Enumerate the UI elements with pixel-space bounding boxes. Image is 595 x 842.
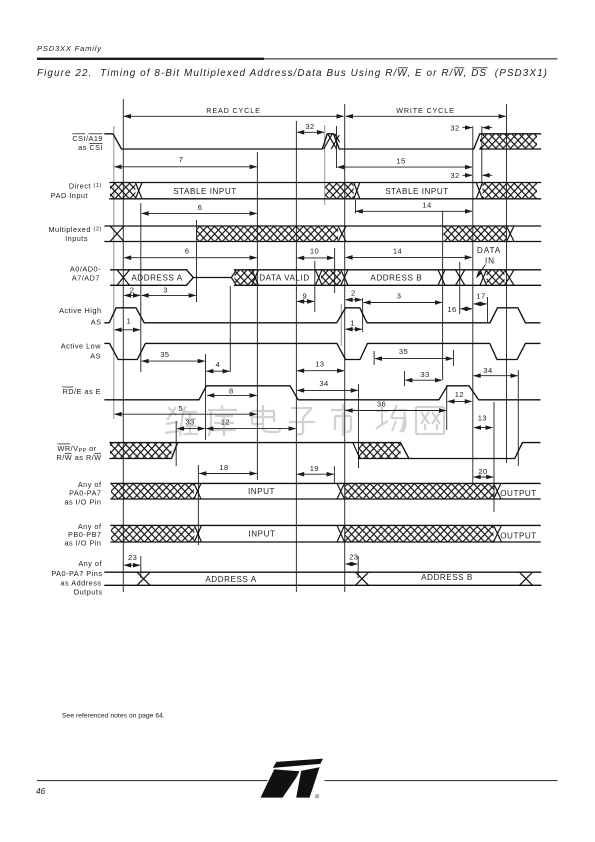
gridline x=506.5 (506, 104, 508, 463)
svg-text:PAD Input: PAD Input (51, 191, 88, 200)
svg-text:35: 35 (160, 350, 169, 359)
dim 18 (199, 473, 256, 475)
row4 X open DATA VALID (252, 270, 259, 286)
子 (289, 408, 315, 434)
READ CYCLE dimension (124, 115, 344, 117)
row1 right hatch band (480, 134, 537, 149)
gridline x=336.5 (336, 126, 338, 168)
dim 8 (207, 394, 256, 396)
gridline x=358.5 (358, 384, 360, 468)
svg-text:as I/O Pin: as I/O Pin (64, 497, 101, 506)
row6 Active Low AS waveform (105, 343, 540, 359)
gridline x=296.4 (295, 121, 297, 592)
gridline x=140.8 (140, 203, 142, 372)
row9 hatch mid (345, 484, 494, 499)
row9 X open INPUT (194, 483, 201, 499)
svg-text:33: 33 (420, 370, 429, 379)
row10 hatch left (111, 526, 194, 542)
row4 X close ADDRESS B (438, 270, 445, 286)
svg-text:as CSI: as CSI (78, 143, 103, 152)
footer rule right (325, 780, 558, 781)
dim 3 (write) (364, 302, 442, 304)
row3 hatch band 1 (197, 227, 339, 242)
gridline x=123.3 (122, 99, 124, 592)
row3 lead X (110, 226, 124, 242)
svg-text:RD/E as E: RD/E as E (62, 387, 101, 396)
svg-text:PSD3XX Family: PSD3XX Family (37, 44, 102, 53)
dim 2 (write) (346, 299, 362, 301)
svg-text:1: 1 (350, 318, 355, 327)
svg-text:32: 32 (305, 122, 314, 131)
dim 36 (346, 410, 446, 412)
dim 23 (right) (346, 563, 358, 565)
row8 hatch band left (110, 443, 172, 458)
gridline x=205.5 (205, 354, 207, 440)
row4 hatch band 1 (235, 270, 257, 285)
dim 23 (left) (124, 564, 140, 566)
svg-text:18: 18 (219, 463, 228, 472)
dim 34 (mid) (297, 389, 358, 391)
dim 14 (write MUX) (346, 256, 472, 258)
维 (165, 406, 198, 436)
gridline x=459.7 (459, 262, 461, 314)
svg-text:R: R (316, 795, 318, 799)
svg-text:3: 3 (397, 292, 402, 301)
svg-text:AS: AS (91, 317, 102, 326)
svg-text:13: 13 (478, 414, 487, 423)
gridline x=481.8 (481, 126, 483, 182)
row2 X close right (476, 183, 482, 199)
svg-text:23: 23 (128, 553, 137, 562)
svg-text:Active High: Active High (59, 306, 101, 315)
watermark 维库电子市场网 (simplified gray strokes) (165, 404, 444, 436)
row8 X expand write (353, 443, 360, 459)
svg-text:IN: IN (485, 257, 495, 266)
gridline x=334.4 (D19 tick) (333, 466, 335, 484)
gray ref line x=113.8 (113, 126, 115, 419)
row9 PA I/O rails (111, 483, 540, 499)
svg-text:1: 1 (127, 316, 132, 325)
dim 1 (read) (115, 329, 140, 331)
dim 9 (297, 300, 314, 302)
svg-text:6: 6 (185, 247, 190, 256)
svg-text:15: 15 (396, 156, 405, 165)
svg-text:3: 3 (163, 285, 168, 294)
dim 6 (MUX row) (124, 257, 256, 259)
svg-text:5: 5 (179, 404, 184, 413)
svg-text:34: 34 (483, 366, 492, 375)
svg-text:INPUT: INPUT (248, 530, 275, 539)
dim 6 (PAD row) (142, 212, 257, 214)
svg-text:ADDRESS B: ADDRESS B (421, 573, 473, 582)
row9 X close INPUT (337, 483, 345, 499)
dim 12 (read) (206, 428, 295, 430)
svg-text:ADDRESS B: ADDRESS B (370, 273, 422, 282)
row4 X open ADDRESS B (341, 270, 348, 286)
row8 R/W top rail + high line (110, 443, 409, 459)
svg-text:PA0-PA7 Pins: PA0-PA7 Pins (51, 569, 102, 578)
row10 X open INPUT (194, 525, 201, 542)
dim 17 (474, 303, 487, 305)
row3 X close 1 (338, 226, 346, 242)
svg-text:10: 10 (310, 247, 319, 256)
row3 X close 2 (507, 226, 515, 242)
row1 CSI/A19 waveform (105, 134, 541, 149)
row9 X open OUTPUT (494, 483, 502, 499)
svg-text:32: 32 (450, 123, 459, 132)
svg-text:R/W as R/W: R/W as R/W (57, 453, 102, 462)
footer rule left (37, 780, 268, 781)
row10 PB I/O rails (111, 525, 540, 542)
svg-text:OUTPUT: OUTPUT (500, 532, 537, 541)
row4 A0/AD rails left (111, 270, 187, 286)
gridline x=404.5 (404, 371, 406, 386)
svg-text:16: 16 (447, 305, 456, 314)
svg-text:WRITE CYCLE: WRITE CYCLE (396, 106, 454, 115)
svg-text:14: 14 (393, 246, 402, 255)
svg-text:AS: AS (90, 351, 101, 360)
row4 rails mid-right (235, 270, 541, 286)
row2 X open mid (354, 183, 360, 199)
svg-text:32: 32 (450, 171, 459, 180)
tick x=355.5 (dim 14 left) (355, 200, 357, 214)
gridline x=453.5 (453, 350, 455, 366)
svg-text:PA0-PA7: PA0-PA7 (69, 488, 101, 497)
svg-text:A7/AD7: A7/AD7 (72, 274, 100, 283)
row8 hatch band write (359, 443, 401, 458)
row9 hatch left (111, 484, 194, 499)
dim 19 (297, 473, 333, 475)
svg-text:Inputs: Inputs (65, 234, 88, 243)
svg-text:17: 17 (476, 292, 485, 301)
svg-text:19: 19 (310, 464, 319, 473)
row4 X close DATA VALID (315, 270, 322, 286)
gridline x=374.1 (373, 351, 375, 365)
gridline x=176.2 (175, 421, 177, 466)
row2 X close left (135, 183, 142, 199)
row3 MUX rails (105, 226, 541, 242)
row1 bump hatch (324, 134, 340, 149)
row2 PAD rails (110, 183, 541, 199)
svg-text:OUTPUT: OUTPUT (500, 489, 537, 498)
row4 expand wedge into hatch (231, 270, 236, 286)
svg-text:6: 6 (198, 203, 203, 212)
header rule thin part (264, 58, 558, 59)
svg-text:13: 13 (315, 360, 324, 369)
dim 32 (read, CSI) (297, 131, 324, 133)
svg-text:36: 36 (377, 400, 386, 409)
gridline x=140.8 (R11 tick) (140, 556, 142, 578)
gridline x=257.4 (256, 152, 258, 480)
svg-text:DATA VALID: DATA VALID (259, 273, 309, 282)
svg-text:as Address: as Address (60, 578, 101, 587)
gridline x=198.4 (197, 465, 199, 545)
svg-text:8: 8 (229, 386, 234, 395)
DATA IN pointer arrow (477, 265, 486, 278)
svg-text:A0/AD0-: A0/AD0- (70, 264, 101, 273)
svg-text:35: 35 (399, 347, 408, 356)
dim 1 (write) (346, 328, 362, 330)
svg-text:Outputs: Outputs (73, 587, 102, 596)
dim 2 (read) (124, 294, 140, 296)
row5 Active High AS waveform (105, 308, 540, 323)
gridline x=230.3 (229, 286, 231, 372)
dim 10 (297, 257, 334, 259)
row4 X open after DATA IN hatch (480, 270, 514, 286)
row3 hatch band 2 (444, 227, 507, 242)
svg-text:INPUT: INPUT (248, 487, 275, 496)
row11 X 2 (356, 572, 369, 585)
dim 13 (read) (297, 370, 344, 372)
row4 hatch band 3 (487, 270, 505, 285)
svg-text:2: 2 (130, 285, 135, 294)
市 (331, 404, 355, 436)
svg-text:9: 9 (303, 292, 308, 301)
row4 X at 460 (456, 270, 465, 286)
dim 34 (write right) (474, 375, 518, 377)
dim 33 (write) (405, 379, 441, 381)
row11 PA address rails (105, 572, 541, 585)
dim 3 (read) (142, 294, 196, 296)
gridline x=196.5 (196, 220, 198, 302)
row2 hatch band mid (325, 183, 354, 198)
svg-text:See referenced notes on page 6: See referenced notes on page 64. (62, 713, 165, 720)
svg-text:12: 12 (455, 390, 464, 399)
row4 close to center line (187, 270, 232, 286)
dim 35 (read) (142, 360, 205, 362)
库 (208, 405, 237, 436)
gridline x=518.3 (517, 370, 519, 466)
svg-text:Any of: Any of (78, 559, 102, 568)
svg-text:Figure 22. Timing of 8-Bit Mu: Figure 22. Timing of 8-Bit Multiplexed A… (37, 68, 548, 79)
dim 7 (115, 166, 257, 168)
svg-text:STABLE INPUT: STABLE INPUT (385, 187, 449, 196)
dim 13 (write) (474, 427, 493, 429)
dim 4 (206, 370, 229, 372)
场 (376, 405, 407, 432)
row2 hatch band right (483, 183, 538, 198)
dim 15 (337, 166, 472, 168)
gray ref line x=341.3 (340, 304, 342, 346)
网 (416, 407, 444, 434)
svg-text:23: 23 (349, 552, 358, 561)
svg-text:READ CYCLE: READ CYCLE (206, 106, 260, 115)
row7 RD/E waveform (105, 386, 540, 400)
svg-text:as I/O Pin: as I/O Pin (64, 538, 101, 547)
svg-text:7: 7 (179, 155, 184, 164)
gridline x=344.7 (344, 104, 346, 592)
gray ref line x=324.7 (324, 125, 326, 205)
ST logo (261, 759, 324, 799)
svg-text:12: 12 (221, 418, 230, 427)
dim 14 (write PAD) (356, 210, 472, 212)
row8 low rail + rise to high (359, 443, 540, 459)
gridline x=334.6 (334, 248, 336, 293)
svg-text:34: 34 (319, 379, 328, 388)
dim 20 (474, 476, 494, 478)
dim 12 (write bump) (448, 400, 472, 402)
WRITE CYCLE dimension (346, 115, 506, 117)
svg-text:2: 2 (351, 288, 356, 297)
svg-text:CSI/A19: CSI/A19 (72, 134, 103, 143)
gridline x=472.8 (472, 126, 474, 483)
svg-text:DATA: DATA (477, 246, 501, 255)
svg-text:4: 4 (216, 360, 221, 369)
svg-text:33: 33 (185, 418, 194, 427)
gridline x=314.8 (314, 261, 316, 312)
svg-text:14: 14 (422, 200, 431, 209)
row10 hatch mid (345, 526, 494, 542)
gridline x=362.6 (362, 298, 364, 332)
row2 hatch band left (110, 183, 135, 198)
电 (252, 405, 280, 432)
row4 hatch band 2 (321, 270, 341, 285)
row4 X at 123 (117, 270, 130, 286)
svg-text:STABLE INPUT: STABLE INPUT (173, 187, 237, 196)
svg-text:20: 20 (478, 467, 487, 476)
header rule thick part (37, 58, 264, 60)
dim 5 (115, 413, 257, 415)
gridline x=358.2 (R11 tick) (357, 556, 359, 578)
gridline x=487.5 (487, 297, 489, 322)
gridline x=446.7 (446, 385, 448, 430)
row1 low rail under right hatch (480, 148, 541, 150)
row11 X 1 (137, 572, 150, 585)
dim 33 (read) (177, 428, 205, 430)
dim 35 (write) (375, 358, 453, 360)
gridline x=442.6 (442, 211, 444, 380)
gridline x=494 (493, 402, 495, 512)
svg-text:ADDRESS A: ADDRESS A (131, 273, 182, 282)
svg-text:46: 46 (36, 787, 46, 796)
svg-text:ADDRESS A: ADDRESS A (205, 575, 256, 584)
row11 X 3 (520, 572, 533, 585)
row10 X open OUTPUT (494, 525, 502, 542)
svg-text:Active Low: Active Low (61, 342, 102, 351)
row10 X close INPUT (337, 525, 345, 542)
